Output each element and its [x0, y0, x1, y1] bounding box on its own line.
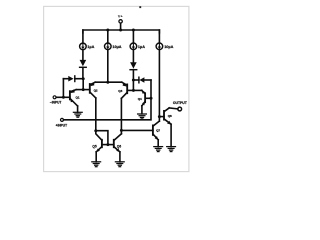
- node Q8 base: [158, 115, 161, 118]
- transistor Q7: [153, 121, 159, 140]
- current source I3: [130, 43, 137, 50]
- power rail: [83, 30, 159, 33]
- wire rail to I3: [132, 30, 134, 43]
- node A (D1 cathode junction): [82, 77, 85, 80]
- node tail: [106, 81, 109, 84]
- wire D3 anode down (+input column): [64, 80, 152, 120]
- wire node F to Q6 collector: [120, 130, 122, 133]
- wire Q1 collector to ground: [77, 106, 79, 112]
- wire Q5 emitter to ground: [95, 152, 97, 162]
- wire Q3 collector down: [120, 98, 122, 130]
- wire diff tail left: [95, 81, 122, 83]
- ground (Q8 emitter): [167, 147, 176, 152]
- border frame: [44, 6, 189, 171]
- -INPUT terminal: [53, 96, 56, 99]
- wire I2 to tail: [107, 50, 109, 83]
- wire -input node up to D1 anode: [62, 79, 64, 98]
- node rail-CS2: [106, 29, 109, 32]
- node E (mirror input): [94, 129, 97, 132]
- wire D4 to node D: [132, 70, 134, 80]
- wire I3 to D4: [132, 50, 134, 63]
- svg-text:10µA: 10µA: [164, 45, 173, 49]
- svg-text:−INPUT: −INPUT: [50, 101, 61, 105]
- wire I4 column down to Q7 collector: [158, 50, 160, 122]
- wire Q4 emitter from node C: [133, 89, 141, 91]
- svg-text:+INPUT: +INPUT: [56, 124, 67, 128]
- current source I2: [105, 43, 112, 50]
- wire rail to I1: [82, 30, 84, 43]
- wire mirror base bar: [102, 144, 114, 146]
- transistor Q1: [70, 89, 78, 106]
- node rail-V+: [119, 29, 122, 32]
- transistor Q8: [164, 108, 171, 125]
- diode D1: [63, 76, 83, 82]
- node F (mirror output): [120, 129, 123, 132]
- svg-text:V+: V+: [118, 13, 124, 18]
- wire Q8 emitter to ground: [170, 124, 172, 146]
- node rail-CS3: [132, 29, 135, 32]
- ground (Q1 collector): [73, 112, 82, 117]
- node mirror bases: [106, 143, 109, 146]
- wire node F to Q7 base: [121, 129, 152, 131]
- svg-text:Q1: Q1: [76, 95, 80, 99]
- svg-text:Q5: Q5: [92, 145, 96, 149]
- wire V+ stem: [120, 23, 122, 30]
- wire Q2 collector down: [95, 98, 97, 131]
- transistor Q2: [90, 82, 96, 98]
- ground (Q6 emitter): [115, 162, 124, 167]
- svg-text:Q6: Q6: [117, 145, 121, 149]
- wire Q4 collector to ground: [141, 106, 143, 114]
- svg-text:Q7: Q7: [156, 129, 160, 133]
- wire Q1 emitter to node B: [76, 89, 83, 91]
- node C (Q3 base / Q4 emitter): [132, 89, 135, 92]
- svg-text:Q2: Q2: [94, 88, 98, 92]
- node -input/D1: [62, 96, 65, 99]
- svg-text:Q3: Q3: [118, 89, 122, 93]
- OUTPUT terminal: [178, 107, 182, 111]
- wire Q6 emitter to ground: [119, 152, 121, 162]
- svg-text:1µA: 1µA: [138, 45, 145, 49]
- wire Q4 base to +input column: [146, 97, 151, 99]
- current source I4: [156, 43, 163, 50]
- transistor Q4: [141, 90, 145, 106]
- wire node E to mirror bases: [96, 131, 108, 145]
- svg-text:1µA: 1µA: [87, 45, 94, 49]
- svg-text:10µA: 10µA: [112, 45, 121, 49]
- ground (Q7 emitter): [154, 147, 163, 152]
- wire Q8 base: [159, 116, 164, 118]
- diode D3: [133, 77, 151, 83]
- transistor Q5: [96, 140, 102, 153]
- node Q4 base: [150, 97, 153, 100]
- svg-text:Q4: Q4: [138, 97, 142, 101]
- transistor Q3: [121, 82, 127, 98]
- transistor Q6: [114, 134, 122, 153]
- wire Q8 collector to output: [169, 108, 178, 109]
- node D (D3 cathode junction): [132, 79, 135, 82]
- ground (Q5 emitter): [92, 162, 101, 167]
- ground (Q4 collector): [138, 114, 147, 119]
- wire node D to node C: [132, 80, 134, 90]
- current source I1: [80, 43, 87, 50]
- diode D4: [130, 62, 137, 69]
- wire I1 to D2: [82, 50, 84, 60]
- wire node E to Q5 collector: [96, 131, 102, 141]
- wire D2 to node A: [82, 67, 84, 78]
- diode D2: [80, 60, 87, 67]
- svg-text:OUTPUT: OUTPUT: [173, 101, 188, 105]
- node B (Q1 emitter / Q2 base): [82, 88, 85, 91]
- wire Q2 base: [83, 89, 90, 91]
- wire rail to I4: [158, 30, 160, 43]
- wire Q3 base to node C: [127, 89, 133, 91]
- mark on top frame edge: [139, 6, 141, 8]
- svg-text:Q8: Q8: [168, 114, 172, 118]
- +INPUT terminal: [61, 118, 64, 121]
- V+ terminal: [119, 20, 122, 23]
- wire rail to I2: [107, 30, 109, 43]
- wire node A down to node B: [82, 79, 84, 90]
- wire Q7 emitter to ground: [157, 140, 159, 147]
- wire -INPUT to Q1 base: [56, 96, 70, 98]
